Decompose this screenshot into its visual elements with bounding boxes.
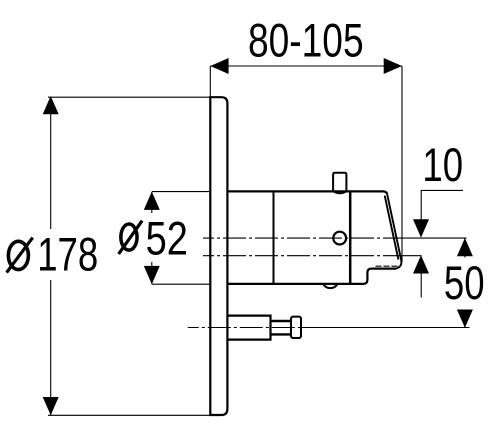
svg-text:80-105: 80-105 [248,14,364,67]
svg-text:52: 52 [146,213,188,266]
svg-text:10: 10 [422,139,463,192]
svg-text:178: 178 [37,228,98,281]
svg-text:50: 50 [444,256,485,309]
